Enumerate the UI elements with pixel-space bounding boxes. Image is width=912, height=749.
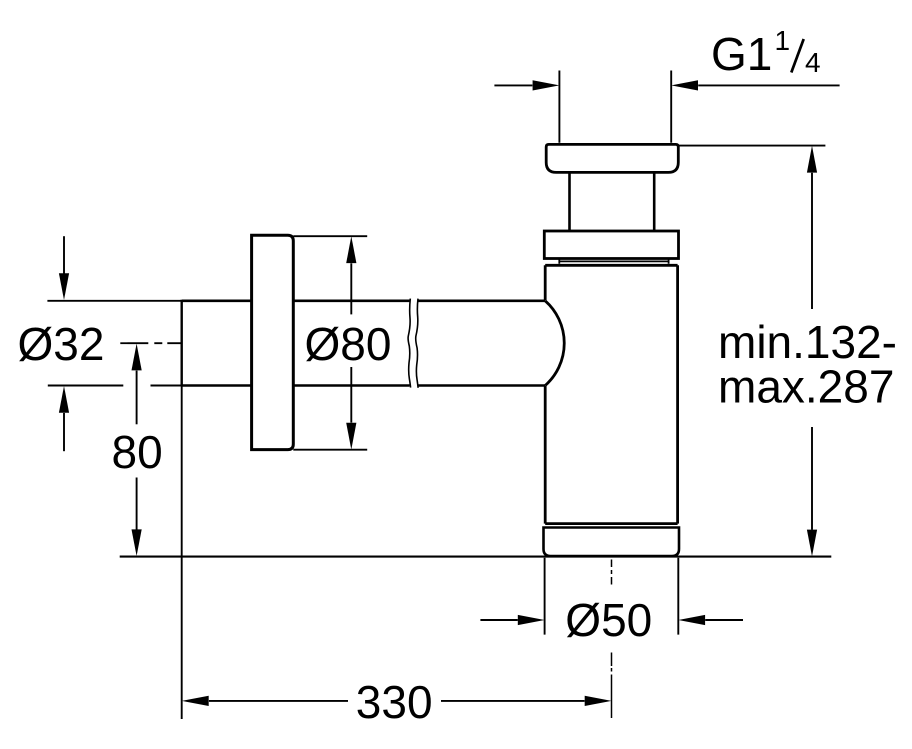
dim Ø32 top extension line	[47, 300, 181, 302]
dim Ø80 lower arrow	[346, 367, 356, 450]
washer line	[559, 259, 669, 264]
dim Ø32 bottom arrow	[59, 386, 69, 451]
dim Ø32 top arrow	[59, 236, 69, 300]
dim min-max lower arrow	[807, 427, 817, 556]
dim Ø50 left extension line	[544, 558, 546, 635]
svg-text:Ø80: Ø80	[305, 318, 392, 370]
dim 80 upper arrow	[132, 344, 142, 425]
label fraction slash	[791, 39, 803, 73]
dim Ø50 right extension line	[677, 558, 679, 635]
baseline floor line	[120, 556, 832, 558]
dim G1 1/4 right arrow	[671, 80, 839, 90]
union collar nut	[544, 231, 678, 259]
pipe break wavy line right	[416, 299, 418, 388]
trap body	[545, 265, 677, 523]
inlet pipe bottom edge	[182, 384, 546, 387]
svg-text:4: 4	[805, 47, 821, 78]
dim Ø50 right arrow	[678, 615, 743, 625]
dim Ø32 bottom extension line	[48, 385, 181, 387]
svg-text:Ø32: Ø32	[18, 318, 105, 370]
bottom centerline	[611, 560, 613, 719]
dim Ø80 bottom extension line	[293, 449, 367, 451]
inlet pipe left end cap	[180, 300, 182, 387]
dim 80 lower arrow	[132, 478, 142, 557]
pipe axis centerline	[120, 342, 182, 344]
top flange cap	[546, 144, 678, 172]
dim min-max top extension line	[679, 145, 825, 147]
dim Ø50 left arrow	[480, 615, 544, 625]
svg-text:80: 80	[112, 426, 163, 478]
svg-text:Ø50: Ø50	[565, 594, 652, 646]
svg-text:1: 1	[775, 25, 791, 56]
dim Ø80 top extension line	[293, 235, 367, 237]
dim 330 left arrow	[182, 696, 348, 706]
dim G1 1/4 right extension line	[670, 71, 672, 143]
dim Ø80 upper arrow	[346, 236, 356, 314]
svg-text:max.287: max.287	[718, 361, 894, 413]
dim min-max upper arrow	[807, 146, 817, 309]
pipe break wavy line left	[408, 299, 411, 388]
svg-text:G1: G1	[711, 28, 772, 80]
svg-text:330: 330	[356, 676, 433, 728]
bottom cup	[544, 528, 680, 557]
inlet pipe top edge	[182, 299, 546, 302]
dim G1 1/4 left extension line	[558, 71, 560, 143]
dim G1 1/4 left arrow	[494, 80, 559, 90]
threaded neck	[570, 172, 655, 231]
dim 330 right arrow	[441, 696, 612, 706]
wall rosette flange	[252, 235, 294, 449]
trap body dome (pipe end inside body)	[545, 301, 564, 386]
dim 330 left extension line	[181, 387, 183, 720]
